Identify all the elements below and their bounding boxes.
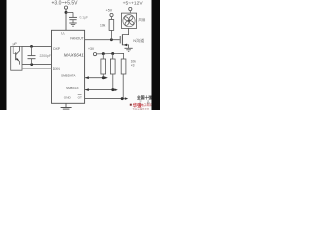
ground (MOSFET source) — [125, 47, 133, 49]
ground (bypass cap) — [69, 22, 76, 24]
+5V terminal — [110, 13, 113, 16]
right black border — [152, 0, 161, 110]
svg-text:DXN: DXN — [53, 67, 61, 71]
fan supply terminal — [129, 7, 132, 10]
svg-text:2200pF: 2200pF — [40, 54, 52, 58]
svg-text:GND: GND — [64, 95, 72, 99]
svg-text:µP: µP — [13, 42, 18, 46]
capacitor C2 2200pF — [31, 46, 33, 55]
svg-text:0.1µF: 0.1µF — [80, 16, 89, 20]
wire fan supply — [129, 11, 131, 13]
uP sensor box — [11, 46, 22, 70]
VCC terminal — [64, 6, 67, 9]
wire OT — [85, 98, 125, 100]
op-amp U1 MAX6641 body — [52, 30, 85, 103]
svg-text:FANOUT: FANOUT — [70, 36, 83, 40]
transistor Q1 (diode-connected, in uP) — [15, 52, 17, 60]
svg-text:10k: 10k — [100, 23, 106, 27]
wire DXN — [22, 64, 52, 66]
ground (U1 GND) — [61, 107, 72, 109]
svg-text:风扇: 风扇 — [138, 17, 145, 22]
wire R4 to FANOUT — [110, 30, 112, 39]
page background — [0, 0, 160, 110]
wire GND pin down — [65, 103, 67, 107]
svg-text:+3.0~+5.5V: +3.0~+5.5V — [52, 0, 79, 6]
svg-text:MAX6641: MAX6641 — [64, 53, 84, 58]
wire VCC down to U1 — [65, 9, 67, 30]
wire pullup rail — [97, 53, 124, 59]
junction VCC node — [65, 11, 68, 14]
svg-text:OT: OT — [78, 95, 82, 99]
svg-text:+5V: +5V — [106, 8, 113, 12]
svg-text:专业元器件平台: 专业元器件平台 — [133, 107, 150, 110]
resistor R3 10k — [121, 59, 126, 74]
svg-text:×3: ×3 — [131, 63, 135, 67]
node DXP junction — [30, 45, 33, 48]
wire +5V to R4 — [111, 17, 113, 20]
left black border — [0, 0, 7, 110]
capacitor C1 0.1uF — [72, 12, 74, 17]
node FANOUT/R4 junction — [110, 38, 113, 41]
wire FANOUT — [85, 39, 120, 41]
svg-text:+5~+12V: +5~+12V — [123, 0, 143, 5]
watermark logo red — [130, 104, 132, 106]
wire to bypass cap — [66, 11, 73, 13]
svg-text:SMBCLK: SMBCLK — [66, 86, 80, 90]
wire SMBDATA — [85, 77, 105, 79]
node DXN junction — [30, 63, 33, 66]
svg-text:N沟道: N沟道 — [133, 37, 144, 43]
wire DXP — [22, 45, 52, 47]
resistor R4 10k — [109, 20, 114, 31]
transistor Q2 N-channel MOSFET — [119, 36, 121, 43]
svg-text:DXP: DXP — [53, 47, 61, 51]
wire emitter return (faint) — [22, 68, 52, 70]
svg-text:SMBDATA: SMBDATA — [61, 73, 76, 77]
resistor R2 10k — [112, 54, 114, 60]
fan M1 — [121, 13, 136, 28]
wire SMBCLK — [85, 89, 115, 91]
svg-text:+3V: +3V — [88, 47, 95, 51]
node rail/R2 — [111, 52, 114, 55]
resistor R1 10k — [102, 54, 104, 59]
+3V terminal — [93, 53, 96, 56]
node rail/R1 — [102, 52, 105, 55]
